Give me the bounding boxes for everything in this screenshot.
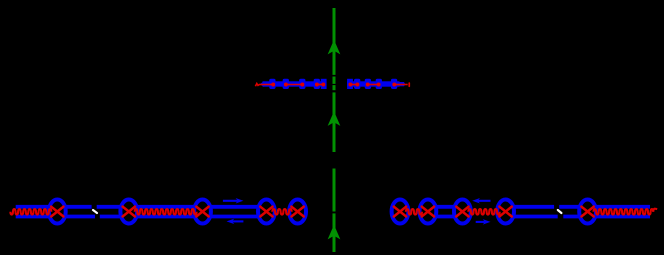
red squiggle S6 (E10 to right end) [594,209,654,215]
red X crossing in E7 [422,207,434,217]
transposase protein ellipse E9 [497,200,514,224]
green arrowhead middle [328,111,341,126]
transposase protein ellipse E6 [392,200,409,224]
blue arrow bottom-right (points right) [476,221,485,223]
squiggle S6 end tail curl [653,209,657,212]
centre axis of symmetry (green dash-dot arrow line) [333,8,336,252]
transposase protein ellipse E4 [258,200,275,224]
red X crossing in E6 [394,207,406,217]
red sub-repeats inside right bar [350,84,407,86]
red sub-repeats inside left bar [255,84,323,87]
red squiggle S2 (E2 to E3) [135,209,197,215]
red X crossing in E3 [196,207,208,217]
red X crossing in E2 [123,207,135,217]
left terminal repeat bar (blue) [260,79,327,89]
red squiggle S4 (E6 to E7) [406,209,422,215]
red terminal tick right bar [408,82,410,87]
transposase protein ellipse E5 [289,200,306,224]
red X crossing in E5 [291,207,303,217]
white staggered-cut slash left [93,210,97,213]
transposase protein ellipse E1 [49,200,66,224]
blue arrow bottom-left (points left) [232,220,243,222]
green arrowhead top [328,40,341,55]
red X crossing in E1 [51,207,63,217]
red squiggle S3 (E4 to E5) [272,209,291,215]
red squiggle S5 (E8 to E9) [468,209,499,215]
blue arrow top-right (points left) [478,200,491,202]
bottom DNA strand segments (blue) [16,215,650,219]
blue arrow top-left (points right) [223,200,238,202]
top DNA strand segments (blue) [16,205,650,209]
transposase protein ellipse E3 [194,200,211,224]
transposase protein ellipse E2 [120,200,137,224]
red ssDNA squiggle S1 (far left into E1) [10,209,51,215]
red X crossing in E9 [499,207,511,217]
transposase protein ellipse E8 [454,200,471,224]
green arrowhead bottom [328,225,341,240]
transposase protein ellipse E7 [420,200,437,224]
red X crossing in E4 [260,207,272,217]
red X crossing in E8 [456,207,468,217]
red X crossing in E10 [581,207,593,217]
transposase protein ellipse E10 [579,200,596,224]
right terminal repeat bar (blue) [347,79,405,89]
white staggered-cut slash right [558,210,562,213]
